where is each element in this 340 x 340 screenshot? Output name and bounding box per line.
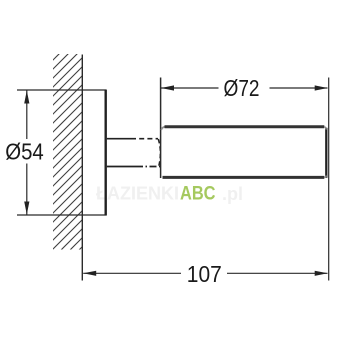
neck top line dashed part xyxy=(131,138,158,140)
right extension line (for Ø72 and 107) xyxy=(328,78,330,281)
Ø54 dimension line upper segment xyxy=(26,91,28,140)
svg-text:ABC: ABC xyxy=(180,184,216,205)
Ø54 dimension line lower segment xyxy=(26,164,28,215)
Ø72 left arrow xyxy=(161,85,174,90)
svg-text:Ø72: Ø72 xyxy=(224,75,260,101)
Ø72 dimension line left segment xyxy=(161,87,219,89)
ring bar top-left gray fillet xyxy=(161,127,166,130)
neck bottom line solid part xyxy=(107,166,136,168)
ring bar top-right gray corner xyxy=(324,127,326,130)
svg-text:Ø54: Ø54 xyxy=(5,139,44,165)
Ø72 right arrow xyxy=(315,85,328,90)
flange bottom edge and Ø54 bottom extension line xyxy=(17,214,106,216)
107 left arrow xyxy=(83,271,96,276)
neck hidden end arc xyxy=(158,139,160,166)
neck top line solid part xyxy=(107,138,131,140)
svg-text:.pl: .pl xyxy=(222,184,243,204)
svg-text:ŁAZIENKI: ŁAZIENKI xyxy=(96,184,179,204)
107 dimension line left segment xyxy=(83,272,181,274)
ring bar right edge xyxy=(325,128,327,178)
Ø54 down arrow xyxy=(24,202,29,215)
svg-text:107: 107 xyxy=(187,261,222,287)
ring bar bottom-right gray corner xyxy=(324,176,326,178)
107 right arrow xyxy=(315,271,328,276)
wall hatching xyxy=(28,0,120,310)
ring bar bottom thick line xyxy=(163,176,325,179)
ring bar left edge (also Ø72 left extension line above) xyxy=(160,78,162,179)
107 dimension line right segment xyxy=(227,272,328,274)
flange top edge and Ø54 top extension line xyxy=(17,89,106,91)
ring bar white fill xyxy=(161,126,326,178)
Ø72 dimension line right segment xyxy=(270,87,328,89)
flange right edge xyxy=(104,90,106,216)
ring bar top thick line xyxy=(165,125,325,128)
Ø54 up arrow xyxy=(24,91,29,104)
wall face line (also 107 left extension line) xyxy=(81,55,83,281)
neck bottom line dash-dot part xyxy=(136,166,160,168)
